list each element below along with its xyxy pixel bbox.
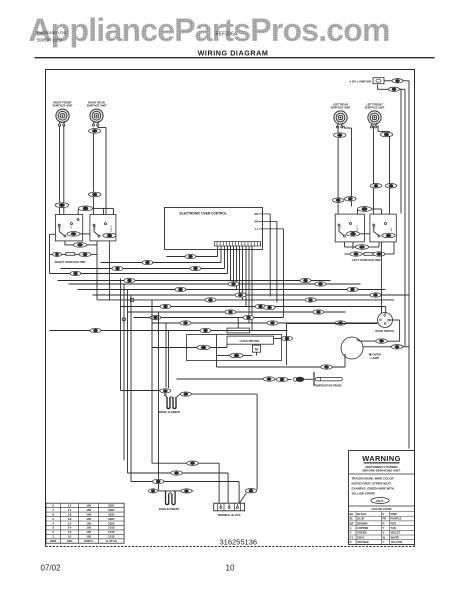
svg-text:150: 150 — [86, 508, 91, 512]
svg-text:WIRE: WIRE — [50, 540, 57, 543]
connector below left switches — [73, 243, 86, 248]
connector below left rear coil — [334, 133, 346, 138]
wire right edge bus A — [408, 81, 410, 449]
wire bus 14 — [50, 330, 288, 332]
connector lower bus B — [171, 471, 183, 475]
connector bake bus D1 — [149, 489, 158, 493]
svg-text:LOCK MOTOR: LOCK MOTOR — [240, 339, 261, 343]
wire bus 5 — [58, 280, 331, 282]
wire right switch drop 1 — [380, 242, 382, 261]
svg-text:YELLOW STRIPE: YELLOW STRIPE — [352, 492, 376, 496]
left front surface unit coil — [368, 111, 381, 124]
svg-text:TEMPERATURE PROBE: TEMPERATURE PROBE — [314, 384, 342, 387]
junction node A — [122, 318, 125, 321]
svg-text:BROIL ELEMENT: BROIL ELEMENT — [159, 410, 181, 414]
svg-text:3321: 3321 — [108, 503, 115, 507]
connector lock left — [197, 345, 210, 350]
svg-text:AWG: AWG — [67, 540, 73, 543]
wire bus 7 — [78, 289, 386, 291]
right rear surface unit coil — [90, 109, 103, 122]
svg-text:COPPER: COPPER — [357, 526, 368, 530]
wire terminal drops — [218, 463, 220, 503]
connector on bus y307 — [264, 305, 276, 309]
left-front surface switch box — [370, 214, 396, 242]
svg-text:GN-YL: GN-YL — [376, 499, 384, 503]
door switch circle — [378, 313, 393, 328]
svg-text:1015: 1015 — [108, 526, 115, 530]
left rear surface unit coil — [334, 111, 347, 124]
right-rear surface switch box — [90, 215, 116, 241]
connector lower left-rear A — [332, 198, 344, 202]
wire door switch top feeds — [380, 261, 382, 314]
svg-text:WARNING: WARNING — [362, 454, 401, 463]
svg-text:ELECTRONIC OVEN CONTROL: ELECTRONIC OVEN CONTROL — [180, 212, 227, 216]
wire indicator link — [50, 253, 53, 255]
svg-text:VIOLET: VIOLET — [391, 531, 401, 535]
connector lock right — [282, 336, 293, 340]
wire bake bus D — [159, 490, 194, 492]
connector broil left — [160, 389, 171, 393]
svg-text:3321: 3321 — [108, 508, 115, 512]
connector broil right — [180, 392, 191, 396]
connector probe 2 — [276, 377, 288, 381]
svg-text:5995371059: 5995371059 — [37, 38, 63, 43]
svg-text:SURFACE UNIT: SURFACE UNIT — [331, 105, 351, 109]
wire right switch link — [360, 233, 370, 235]
connector lower left-rear B — [345, 197, 357, 201]
connector on right-rear coil wire — [89, 192, 101, 197]
svg-text:Publication No.: Publication No. — [37, 30, 68, 35]
wire gauge table — [46, 503, 124, 543]
svg-text:O: O — [350, 540, 352, 544]
svg-text:PURPLE: PURPLE — [391, 517, 402, 521]
svg-text:105: 105 — [86, 526, 91, 530]
svg-text:NOTED FIRST, STRIPE NEXT.: NOTED FIRST, STRIPE NEXT. — [352, 482, 392, 486]
right-front switch internals — [58, 224, 60, 226]
wire bus 6 — [69, 283, 361, 285]
left-front switch internals — [373, 224, 375, 226]
connector below lamp — [389, 87, 400, 91]
wire EOC pin drops — [217, 246, 219, 257]
svg-text:12: 12 — [68, 503, 72, 507]
connector below right switches — [355, 245, 368, 250]
svg-text:SURFACE UNIT: SURFACE UNIT — [53, 104, 73, 108]
connector above terminal — [245, 489, 257, 493]
connector lower left-front A — [370, 184, 382, 188]
wire lock bottom — [217, 355, 230, 357]
header rule — [35, 57, 435, 59]
right-front surface switch box — [55, 215, 82, 241]
lock motor outer box — [187, 335, 282, 361]
wire left switch drop 2 — [108, 241, 110, 300]
svg-text:PR: PR — [383, 517, 387, 521]
svg-text:COLOR CODE: COLOR CODE — [371, 507, 391, 511]
svg-text:TRACER MARK: WIRE COLOR: TRACER MARK: WIRE COLOR — [352, 477, 395, 481]
wire right switch bottom loop — [344, 242, 346, 247]
wire left indicator link — [345, 253, 351, 255]
wire bus 9 — [97, 299, 394, 301]
EOC pin strip — [215, 242, 261, 247]
wire bus 8 — [93, 294, 410, 296]
svg-text:G: G — [350, 531, 352, 535]
connector bake bus D2 — [181, 489, 192, 493]
wire lower bus B — [128, 472, 229, 474]
wire bus 12 — [134, 317, 284, 319]
svg-text:BROWN: BROWN — [357, 521, 368, 525]
wire to frame left — [50, 233, 56, 235]
svg-text:1015: 1015 — [108, 530, 115, 534]
connector probe 1 — [263, 377, 275, 381]
svg-text:18: 18 — [68, 512, 72, 516]
svg-text:18: 18 — [68, 517, 72, 521]
connector right of lamp box — [392, 79, 403, 83]
svg-text:ORANGE: ORANGE — [357, 540, 369, 544]
svg-text:GY: GY — [350, 535, 354, 539]
connector at right-rear switch right edge — [103, 233, 116, 238]
svg-text:BR: BR — [255, 219, 259, 223]
svg-text:TAN: TAN — [391, 526, 396, 530]
wire left drop group — [120, 279, 122, 391]
svg-text:♦ OV LAMP SW: ♦ OV LAMP SW — [350, 80, 372, 84]
svg-text:RED: RED — [391, 521, 397, 525]
wire lower bus C — [131, 481, 239, 483]
wire right-rear coil to switch — [92, 133, 94, 214]
right surface indicator: connector — [53, 252, 62, 256]
svg-text:BEFORE SERVICING UNIT.: BEFORE SERVICING UNIT. — [362, 469, 400, 473]
connector door sw B — [391, 345, 403, 349]
left surface indicator: connector — [350, 252, 362, 256]
svg-text:AppliancePartsPros.com: AppliancePartsPros.com — [29, 12, 390, 48]
wire bus 1 — [167, 256, 218, 258]
svg-text:150: 150 — [86, 512, 91, 516]
svg-text:DOOR SWITCH: DOOR SWITCH — [375, 329, 394, 333]
wire lamp to right bus — [384, 80, 392, 82]
wire door switch right loop — [390, 319, 400, 321]
wire lock bar feed — [237, 318, 239, 329]
svg-text:BR: BR — [350, 521, 354, 525]
svg-text:3321: 3321 — [108, 517, 115, 521]
svg-text:BLUE: BLUE — [357, 517, 365, 521]
broil junction node — [164, 394, 166, 396]
svg-text:BL: BL — [350, 517, 354, 521]
page frame — [46, 70, 415, 547]
svg-text:3321: 3321 — [108, 521, 115, 525]
svg-text:R: R — [383, 521, 385, 525]
wire terminal diagonal — [239, 493, 246, 503]
bake element coil — [166, 491, 176, 505]
wire probe link — [177, 378, 264, 380]
svg-text:BK: BK — [350, 512, 354, 516]
svg-text:105: 105 — [86, 535, 91, 539]
warning box — [349, 451, 415, 545]
wire tall loop — [286, 324, 288, 366]
wire switch top loop — [77, 211, 79, 215]
wire door sw to lamp — [359, 340, 376, 342]
connector between left switch tops — [79, 206, 93, 211]
svg-text:PILOT: PILOT — [111, 225, 113, 232]
svg-text:RIGHT SURFACE IND.: RIGHT SURFACE IND. — [55, 260, 87, 264]
svg-text:BLACK: BLACK — [357, 512, 366, 516]
wire bus 11 — [128, 311, 346, 313]
wire lamp lower leg — [377, 85, 379, 90]
svg-text:BAKE ELEMENT: BAKE ELEMENT — [159, 507, 180, 511]
svg-text:GRAY: GRAY — [357, 535, 365, 539]
wire indicator to bus — [91, 253, 97, 255]
connector below left front coil — [380, 132, 392, 137]
svg-text:1015: 1015 — [108, 535, 115, 539]
right surface indicator resistor — [66, 253, 75, 256]
right surface indicator: connector 2 — [79, 252, 91, 256]
svg-text:SIG: SIG — [391, 227, 393, 231]
wire left-rear coil down — [337, 126, 339, 215]
svg-text:PINK: PINK — [391, 512, 397, 516]
connector probe 3 dark — [296, 377, 304, 382]
broil element coil — [167, 397, 176, 409]
wire left switch drop 1 — [96, 245, 98, 300]
connector oven lamp left — [321, 365, 333, 369]
electronic oven control box — [165, 208, 263, 250]
connector above right switches — [358, 207, 372, 212]
svg-text:EXAMPLE: GREEN WIRE WITH: EXAMPLE: GREEN WIRE WITH — [352, 487, 395, 491]
svg-text:SURFACE UNIT: SURFACE UNIT — [87, 104, 107, 108]
svg-text:10: 10 — [226, 564, 235, 573]
svg-text:150: 150 — [86, 521, 91, 525]
svg-text:C: C — [350, 526, 352, 530]
svg-text:GREEN: GREEN — [357, 531, 367, 535]
right front surface unit coil — [56, 109, 69, 122]
svg-text:L1: L1 — [255, 227, 259, 231]
wire lock links — [152, 347, 197, 349]
svg-text:SURFACE UNIT: SURFACE UNIT — [365, 105, 385, 109]
wire right edge bus B — [404, 96, 406, 347]
svg-text:LEFT SURFACE IND.: LEFT SURFACE IND. — [352, 258, 382, 262]
wire bus 13 — [152, 322, 378, 324]
wire oven lamp left — [344, 356, 346, 367]
lock motor inner box — [227, 336, 274, 344]
svg-text:10: 10 — [68, 521, 72, 525]
wire right edge bus C — [400, 89, 402, 214]
left surface indicator: connector 2 — [373, 252, 385, 256]
connector at left-front switch — [382, 233, 395, 238]
connector inside right-front switch — [67, 232, 80, 237]
left-rear switch internals — [338, 224, 340, 226]
wire left switch link — [66, 233, 68, 235]
connector lower bus A — [187, 461, 199, 465]
svg-text:P: P — [383, 512, 385, 516]
connector lock bottom — [230, 353, 243, 358]
wire bus 4 — [50, 273, 228, 275]
svg-text:16: 16 — [68, 530, 72, 534]
connector pair below right-front coil — [55, 203, 69, 208]
connector lower left-front B — [385, 184, 397, 188]
svg-text:105: 105 — [86, 530, 91, 534]
connector inside left-rear switch — [346, 232, 359, 237]
junction node B — [130, 298, 133, 301]
wire EOC right drops — [269, 214, 271, 297]
svg-text:PILOT: PILOT — [357, 225, 359, 232]
svg-text:WHITE: WHITE — [391, 535, 400, 539]
left surface indicator resistor — [364, 253, 373, 256]
oven lamp switch box — [373, 78, 384, 84]
svg-text:10: 10 — [68, 535, 72, 539]
oven lamp terminals — [344, 355, 346, 357]
wire right switch top loop — [357, 209, 359, 214]
svg-text:YELLOW: YELLOW — [391, 540, 403, 544]
svg-text:LAMP: LAMP — [371, 356, 380, 360]
color code table — [349, 515, 415, 517]
svg-text:BK: BK — [255, 212, 259, 216]
svg-text:V: V — [383, 531, 385, 535]
wire door sw B link — [403, 346, 409, 348]
left-rear surface switch box — [335, 214, 364, 242]
terminal block box — [214, 503, 245, 511]
right-rear switch internals — [93, 224, 95, 226]
wire bus 2 — [101, 262, 222, 264]
lock motor bar — [227, 328, 249, 333]
svg-text:M: M — [255, 348, 258, 352]
wire switch bottom loop — [64, 241, 66, 245]
lock motor M box — [253, 345, 261, 352]
connector below right rear coil — [89, 129, 101, 134]
svg-text:3321: 3321 — [108, 512, 115, 516]
wire broil right — [191, 393, 257, 395]
svg-text:07/02: 07/02 — [41, 564, 62, 573]
wire right-front coil to switch — [59, 126, 61, 215]
wire right switch drop 2 — [352, 242, 354, 249]
svg-text:FEF336A: FEF336A — [216, 32, 238, 38]
temperature probe body — [313, 372, 315, 386]
wire bus 3 — [61, 268, 225, 270]
svg-text:150: 150 — [86, 517, 91, 521]
svg-text:TEMP°C: TEMP°C — [84, 540, 94, 543]
connector door sw A — [376, 339, 388, 343]
svg-text:150: 150 — [86, 503, 91, 507]
svg-text:Y: Y — [383, 540, 385, 544]
svg-text:WIRING DIAGRAM: WIRING DIAGRAM — [198, 49, 269, 58]
svg-text:14: 14 — [68, 526, 72, 530]
wire lower bus A — [152, 462, 219, 464]
connector lower bus C — [152, 479, 164, 483]
svg-text:TERMINAL BLOCK: TERMINAL BLOCK — [217, 513, 240, 517]
oven lamp circle — [341, 337, 363, 359]
wire broil feeds — [165, 323, 167, 388]
wire left-front coil down — [373, 126, 375, 215]
svg-text:316255136: 316255136 — [220, 538, 258, 547]
svg-text:14: 14 — [68, 508, 72, 512]
svg-text:UL STYLE: UL STYLE — [106, 540, 118, 543]
wire bus 10 — [121, 306, 386, 308]
